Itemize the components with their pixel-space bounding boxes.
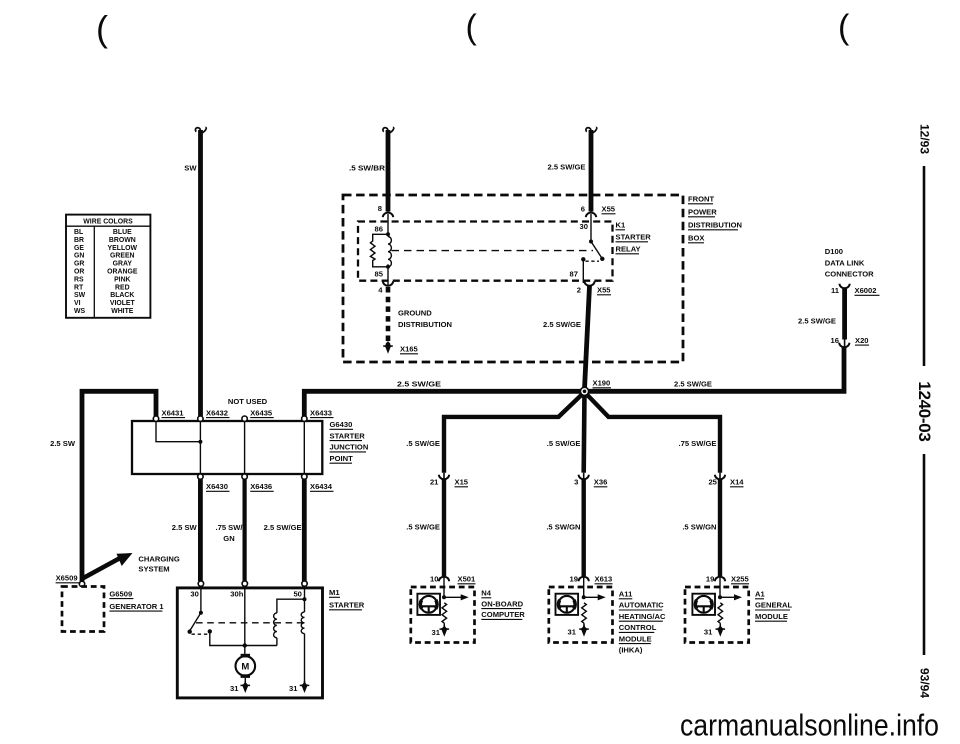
svg-text:COMPUTER: COMPUTER — [481, 610, 525, 619]
svg-text:.5 SW/BR: .5 SW/BR — [349, 164, 386, 173]
svg-text:BROWN: BROWN — [109, 237, 136, 244]
wire ground distribution (thick dashed) — [386, 287, 391, 341]
svg-text:30h: 30h — [230, 590, 243, 599]
svg-text:SW: SW — [74, 292, 86, 299]
svg-text:X36: X36 — [594, 478, 608, 487]
svg-text:25: 25 — [708, 478, 717, 487]
wire .5 SW/BR vertical — [383, 127, 394, 211]
svg-text:X6002: X6002 — [855, 286, 877, 295]
label GROUND DISTRIBUTION — [398, 309, 452, 330]
front power distribution box (dashed) — [343, 195, 683, 362]
svg-text:2.5 SW/GE: 2.5 SW/GE — [674, 380, 712, 389]
module A1 internals — [692, 577, 742, 637]
svg-text:GROUND: GROUND — [398, 309, 432, 318]
wire 2.5 SW/GE to data link connector — [842, 289, 847, 340]
connector X14 pin 25 (inline cup) — [708, 473, 744, 487]
wire .5 SW/GN to A1 — [718, 479, 722, 576]
svg-text:GN: GN — [74, 253, 84, 260]
svg-text:(IHKA): (IHKA) — [619, 646, 643, 655]
svg-text:M1: M1 — [329, 588, 340, 597]
svg-text:30: 30 — [190, 590, 198, 599]
svg-text:MODULE: MODULE — [755, 612, 788, 621]
module N4 internals — [417, 577, 468, 637]
svg-text:DISTRIBUTION: DISTRIBUTION — [398, 320, 452, 329]
svg-text:RED: RED — [115, 284, 130, 291]
label D100 DATA LINK CONNECTOR — [825, 247, 874, 278]
page crease mark center — [466, 9, 478, 47]
svg-text:DISTRIBUTION: DISTRIBUTION — [688, 221, 742, 230]
svg-text:RELAY: RELAY — [616, 245, 641, 254]
wire SW vertical (ignition feed) — [195, 127, 206, 416]
label .5 SW/BR — [349, 164, 386, 173]
ground 31 (solenoid) — [289, 681, 309, 693]
svg-text:carmanualsonline.info: carmanualsonline.info — [680, 709, 939, 743]
label 2.5 SW/GE (data link) — [798, 317, 836, 326]
svg-text:G6430: G6430 — [330, 420, 353, 429]
svg-text:2.5 SW/GE: 2.5 SW/GE — [264, 523, 302, 532]
ground X165 — [383, 342, 418, 354]
svg-text:(: ( — [96, 8, 108, 49]
svg-text:STARTER: STARTER — [616, 233, 652, 242]
svg-text:ON-BOARD: ON-BOARD — [481, 599, 523, 608]
generator G6509 box (dashed) — [62, 587, 104, 632]
svg-text:31: 31 — [432, 628, 441, 637]
svg-text:X501: X501 — [458, 575, 477, 584]
svg-text:10: 10 — [430, 575, 438, 584]
svg-text:BLUE: BLUE — [113, 229, 132, 236]
label M1 STARTER — [329, 588, 365, 610]
wire 2.5 SW to starter pin 30 — [198, 479, 203, 581]
svg-text:GR: GR — [74, 261, 84, 268]
label 2.5 SW/GE — [548, 163, 586, 172]
svg-text:2.5 SW: 2.5 SW — [50, 439, 76, 448]
svg-text:X6432: X6432 — [206, 409, 228, 418]
branch wire center from X190 to X36 — [581, 391, 586, 472]
connector pin 4 (cup) — [378, 281, 393, 295]
svg-text:JUNCTION: JUNCTION — [330, 443, 369, 452]
svg-text:GRAY: GRAY — [113, 261, 133, 268]
svg-text:(: ( — [466, 9, 478, 47]
wire left feed from bus to X6431 — [80, 391, 156, 416]
svg-text:FRONT: FRONT — [688, 195, 715, 204]
svg-text:OR: OR — [74, 269, 84, 276]
svg-text:(: ( — [838, 9, 850, 47]
svg-text:SW: SW — [184, 164, 197, 173]
starter pin 30h terminal — [230, 581, 247, 599]
svg-text:VIOLET: VIOLET — [110, 300, 136, 307]
branch wire left from X190 to X15 — [444, 392, 585, 473]
sidebar page number 1240-03 — [915, 381, 934, 441]
svg-text:93/94: 93/94 — [918, 668, 932, 698]
label A11 AUTOMATIC HEATING/AC CONTROL MODULE (IHKA) — [619, 590, 666, 655]
svg-text:VI: VI — [74, 300, 81, 307]
svg-text:21: 21 — [430, 478, 439, 487]
svg-text:WHITE: WHITE — [111, 308, 134, 315]
svg-text:X255: X255 — [731, 575, 750, 584]
svg-text:D100: D100 — [825, 247, 843, 256]
svg-text:.75 SW/: .75 SW/ — [215, 523, 243, 532]
svg-text:PINK: PINK — [114, 276, 130, 283]
svg-text:M: M — [241, 662, 249, 673]
svg-text:POWER: POWER — [688, 208, 717, 217]
svg-text:MODULE: MODULE — [619, 634, 652, 643]
svg-text:GN: GN — [223, 534, 234, 543]
starter linkage dashed line — [196, 622, 305, 624]
label A1 GENERAL MODULE — [755, 590, 792, 622]
label 2.5 SW — [172, 523, 198, 532]
svg-text:2.5 SW/GE: 2.5 SW/GE — [543, 320, 581, 329]
label SW — [184, 164, 197, 173]
connector X36 pin 3 (inline cup) — [574, 473, 607, 487]
page crease mark left — [96, 8, 108, 49]
svg-text:31: 31 — [230, 684, 239, 693]
label 2.5 SW/GE (bus right) — [674, 380, 712, 389]
label G6509 GENERATOR 1 — [109, 589, 164, 611]
junction box G6430 — [132, 421, 322, 474]
starter M1 box — [177, 588, 322, 698]
svg-text:X14: X14 — [730, 478, 744, 487]
svg-text:RT: RT — [74, 284, 84, 291]
svg-text:A11: A11 — [619, 590, 633, 599]
svg-text:HEATING/AC: HEATING/AC — [619, 612, 666, 621]
relay K1 box (dashed) — [358, 222, 613, 281]
connector X255 pin 19 (cup) — [706, 575, 750, 584]
sidebar date 93/94 — [918, 668, 932, 698]
pin 86 lead — [375, 214, 388, 234]
svg-text:X6509: X6509 — [56, 574, 78, 583]
svg-text:BOX: BOX — [688, 234, 704, 243]
relay coil K1 — [370, 232, 391, 268]
svg-text:16: 16 — [831, 336, 839, 345]
svg-text:WIRE COLORS: WIRE COLORS — [83, 219, 133, 226]
svg-text:N4: N4 — [481, 589, 491, 598]
svg-text:.5 SW/GE: .5 SW/GE — [547, 439, 581, 448]
svg-text:STARTER: STARTER — [329, 601, 365, 610]
label 2.5 SW/GE (to pin 50) — [264, 523, 302, 532]
charging system arrow — [83, 553, 133, 579]
ground 31 (motor) — [230, 678, 250, 693]
connector X6432 — [198, 409, 230, 422]
svg-text:SYSTEM: SYSTEM — [138, 565, 169, 574]
svg-text:.75 SW/GE: .75 SW/GE — [679, 439, 717, 448]
svg-text:X6430: X6430 — [206, 482, 228, 491]
svg-text:NOT USED: NOT USED — [228, 397, 268, 406]
label .5 SW/GE (center branch) — [547, 439, 581, 448]
svg-text:X6434: X6434 — [310, 482, 333, 491]
wire 2.5 SW/GE relay to bus — [585, 286, 590, 389]
module A11 box (dashed) — [549, 587, 613, 643]
svg-text:STARTER: STARTER — [330, 431, 366, 440]
svg-text:2.5 SW/GE: 2.5 SW/GE — [798, 317, 836, 326]
label .5 SW/GE (left branch) — [406, 439, 440, 448]
label 2.5 SW/GE (below relay) — [543, 320, 581, 329]
svg-text:GE: GE — [74, 245, 84, 252]
label .75 SW/ GN — [215, 523, 243, 543]
connector X6430 — [198, 474, 230, 491]
motor M — [236, 654, 256, 678]
svg-text:WS: WS — [74, 308, 86, 315]
connector X55 pin 6 (cup) — [581, 205, 616, 218]
svg-text:.5 SW/GE: .5 SW/GE — [406, 523, 440, 532]
wire colors legend table — [66, 215, 150, 318]
starter pin 50 lead and solenoid coils — [274, 586, 307, 684]
main bus 2.5 SW/GE with riser to X20 — [304, 348, 844, 417]
wire 2.5 SW/GE vertical to relay — [586, 127, 597, 211]
svg-text:2: 2 — [577, 286, 581, 295]
svg-text:X190: X190 — [593, 379, 611, 388]
label X190 — [593, 379, 612, 388]
connector X613 pin 19 (cup) — [570, 575, 613, 584]
svg-text:X55: X55 — [597, 286, 611, 295]
svg-text:50: 50 — [293, 590, 301, 599]
svg-text:BL: BL — [74, 229, 83, 236]
wire 2.5 SW/GE to starter pin 50 — [302, 479, 307, 581]
label NOT USED — [228, 397, 268, 406]
label N4 ON-BOARD COMPUTER — [481, 589, 525, 620]
connector X6435 — [242, 409, 274, 422]
starter pin 50 terminal — [293, 581, 307, 599]
svg-text:RS: RS — [74, 276, 84, 283]
svg-text:X55: X55 — [602, 205, 616, 214]
svg-text:BLACK: BLACK — [110, 292, 134, 299]
svg-text:X6436: X6436 — [250, 482, 272, 491]
svg-text:.5 SW/GN: .5 SW/GN — [682, 523, 716, 532]
svg-text:2.5 SW/GE: 2.5 SW/GE — [397, 380, 441, 389]
page crease mark right — [838, 9, 850, 47]
relay linkage dashed line — [392, 250, 594, 252]
watermark — [680, 709, 939, 743]
label 2.5 SW (left) — [50, 439, 76, 448]
svg-text:31: 31 — [289, 684, 298, 693]
svg-text:GENERATOR 1: GENERATOR 1 — [109, 602, 164, 611]
connector X6002 pin 11 (cup) — [831, 284, 880, 296]
svg-text:X20: X20 — [855, 336, 869, 345]
label K1 STARTER RELAY — [616, 221, 652, 254]
label CHARGING SYSTEM — [138, 555, 179, 574]
connector X15 pin 21 (inline cup) — [430, 473, 469, 487]
module A11 internals — [556, 577, 606, 637]
sidebar rule lower — [923, 454, 926, 655]
connector X6509 — [56, 574, 85, 587]
svg-text:YELLOW: YELLOW — [108, 245, 138, 252]
svg-text:ORANGE: ORANGE — [107, 269, 138, 276]
branch wire right from X190 to X14 — [585, 392, 721, 473]
svg-text:X6431: X6431 — [162, 409, 185, 418]
svg-text:12/93: 12/93 — [918, 124, 932, 154]
connector X6433 — [302, 409, 334, 422]
svg-text:2.5 SW/GE: 2.5 SW/GE — [548, 163, 586, 172]
connector X6431 — [153, 409, 185, 422]
connector X501 pin 10 (cup) — [430, 575, 476, 584]
label .5 SW/GE (to N4) — [406, 523, 440, 532]
svg-text:1240-03: 1240-03 — [915, 381, 934, 441]
svg-text:86: 86 — [375, 225, 383, 234]
sidebar rule upper — [923, 166, 926, 366]
svg-text:CONTROL: CONTROL — [619, 623, 657, 632]
pin 85 lead — [375, 267, 388, 281]
svg-text:2.5 SW: 2.5 SW — [172, 523, 198, 532]
svg-text:G6509: G6509 — [109, 589, 132, 598]
label .5 SW/GN (to A1) — [682, 523, 716, 532]
relay switch contact — [581, 240, 604, 262]
junction box internal links — [156, 421, 304, 474]
starter pin 30 terminal — [190, 581, 203, 599]
svg-text:X6435: X6435 — [250, 409, 273, 418]
svg-text:85: 85 — [375, 270, 384, 279]
wire .5 SW/GE to N4 — [442, 479, 446, 576]
svg-text:X613: X613 — [595, 575, 613, 584]
connector X6434 — [302, 474, 334, 491]
label G6430 STARTER JUNCTION POINT — [330, 420, 369, 463]
svg-text:.5 SW/GE: .5 SW/GE — [406, 439, 440, 448]
svg-text:6: 6 — [581, 205, 585, 214]
connector X20 pin 16 (inline cup) — [831, 336, 869, 348]
svg-text:19: 19 — [706, 575, 714, 584]
wire 2.5 SW generator drop — [80, 389, 85, 581]
svg-text:GENERAL: GENERAL — [755, 601, 792, 610]
svg-text:DATA LINK: DATA LINK — [825, 258, 865, 267]
svg-text:8: 8 — [378, 204, 382, 213]
node X190 — [580, 386, 590, 396]
svg-text:X15: X15 — [455, 478, 469, 487]
svg-text:X6433: X6433 — [310, 409, 332, 418]
svg-text:CONNECTOR: CONNECTOR — [825, 269, 874, 278]
sidebar date 12/93 — [918, 124, 932, 154]
pin 30 lead — [580, 214, 591, 242]
module N4 box (dashed) — [411, 587, 475, 643]
label .75 SW/GE (right branch) — [679, 439, 717, 448]
svg-text:3: 3 — [574, 478, 578, 487]
svg-text:CHARGING: CHARGING — [138, 555, 179, 564]
svg-text:A1: A1 — [755, 590, 765, 599]
svg-text:GREEN: GREEN — [110, 253, 135, 260]
svg-text:AUTOMATIC: AUTOMATIC — [619, 601, 664, 610]
label FRONT POWER DISTRIBUTION BOX — [688, 195, 742, 243]
svg-text:BR: BR — [74, 237, 84, 244]
wire .5 SW/GN to A11 — [582, 479, 586, 576]
svg-text:.5 SW/GN: .5 SW/GN — [546, 523, 580, 532]
svg-text:K1: K1 — [616, 221, 626, 230]
wire .75 SW/GN to starter pin 30h — [243, 479, 247, 581]
connector pin 8 (cup) — [378, 204, 393, 217]
svg-text:X165: X165 — [400, 345, 419, 354]
starter pin 30h lead — [243, 586, 247, 655]
svg-text:87: 87 — [570, 270, 578, 279]
svg-text:POINT: POINT — [330, 454, 354, 463]
svg-text:11: 11 — [831, 286, 840, 295]
connector X55 pin 2 (cup) — [577, 281, 612, 295]
svg-text:31: 31 — [568, 628, 577, 637]
label 2.5 SW/GE (bus left) — [397, 380, 441, 389]
svg-text:19: 19 — [570, 575, 578, 584]
pin 87 lead — [570, 259, 584, 280]
module A1 box (dashed) — [685, 587, 749, 643]
connector X6436 — [242, 474, 274, 491]
svg-text:31: 31 — [704, 628, 713, 637]
starter switch — [188, 586, 277, 646]
label .5 SW/GN (to A11) — [546, 523, 580, 532]
svg-text:30: 30 — [580, 222, 588, 231]
